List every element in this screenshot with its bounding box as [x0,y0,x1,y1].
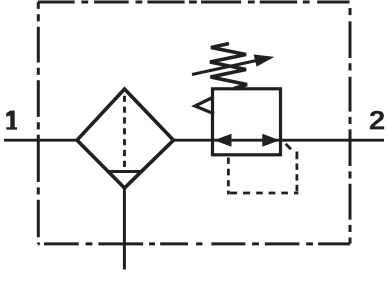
relief vent open arrowhead [195,98,214,114]
enclosure border right (dash-dot) [349,8,352,244]
pilot line diagonal dash [286,144,291,149]
main flow line port 1 to filter [4,139,79,142]
enclosure border bottom (dash-dot) [38,242,350,245]
port label 1 [6,111,17,130]
pilot line bottom dashes [230,192,298,195]
regulator left arrowhead [214,134,232,147]
pilot line left vertical dashes [227,158,230,187]
regulator body R1 [213,89,281,155]
enclosure border top (dash-dot) [38,1,350,4]
port label 2 [370,111,384,130]
enclosure border left (dash-dot) [37,2,40,244]
adjustment arrow shaft [192,59,262,74]
adjustment arrowhead [254,54,275,66]
regulator right arrowhead [262,134,280,147]
pilot line right vertical dashes [295,152,298,192]
main flow line filter to port 2 [172,139,384,142]
water separator chord [108,170,142,173]
pilot line bottom-left corner dash [227,191,230,195]
filter diamond F1 [77,89,174,188]
filter element dashed centre line [123,96,126,167]
drain line [123,187,126,270]
adjustment spring [210,44,247,89]
